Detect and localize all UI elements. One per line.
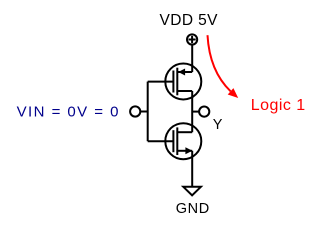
wire NMOS gate <box>148 140 174 142</box>
wire PMOS drain to NMOS drain <box>191 91 193 132</box>
ground symbol <box>183 187 201 196</box>
wire NMOS source to ground <box>191 151 193 187</box>
output terminal circle <box>199 107 209 117</box>
svg-text:VIN = 0V = 0: VIN = 0V = 0 <box>17 103 120 120</box>
power terminal VDD (plus circle) <box>187 34 197 44</box>
transistor Q2 NMOS <box>165 123 201 159</box>
wire PMOS gate <box>148 81 174 83</box>
transistor Q1 PMOS <box>165 64 201 100</box>
svg-text:Logic 1: Logic 1 <box>251 97 306 114</box>
annotation red arrow <box>208 35 231 91</box>
svg-text:GND: GND <box>176 201 210 217</box>
wire input stub <box>140 111 147 113</box>
input terminal circle <box>130 106 140 116</box>
svg-text:Y: Y <box>213 117 223 133</box>
wire VDD to PMOS source <box>191 45 193 72</box>
wire output stub <box>192 111 199 113</box>
PMOS arrow (points left into channel) <box>178 69 185 76</box>
wire input bus vertical <box>147 82 149 142</box>
svg-text:VDD 5V: VDD 5V <box>160 12 219 29</box>
NMOS arrow (points right out of channel) <box>185 147 192 154</box>
